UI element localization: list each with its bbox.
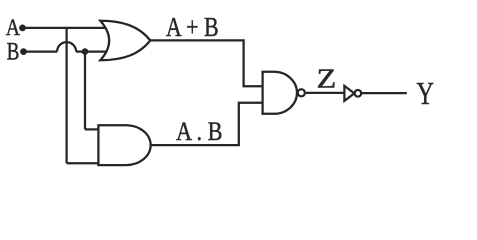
input label B bbox=[7, 36, 20, 65]
inverter bubble bbox=[355, 90, 362, 97]
wire A branch bottom horizontal bbox=[67, 162, 100, 164]
wire B horizontal right of hop bbox=[76, 50, 106, 52]
wire NAND output to inverter bbox=[306, 92, 345, 94]
svg-text:B: B bbox=[7, 36, 20, 65]
wire AND gate output to NAND lower input bbox=[151, 103, 263, 145]
svg-text:Y: Y bbox=[417, 75, 435, 111]
AND gate G2 bbox=[98, 125, 150, 165]
node dot B branch bbox=[82, 48, 89, 55]
wire hop (bridge over A branch) bbox=[57, 42, 76, 52]
wire B branch horizontal into AND bbox=[85, 128, 100, 130]
inverter G4 triangle bbox=[344, 86, 354, 101]
wire B horizontal left of hop bbox=[24, 50, 58, 52]
label A + B bbox=[166, 11, 219, 42]
wire OR gate output to NAND upper input bbox=[150, 40, 262, 86]
output label Y bbox=[417, 75, 435, 111]
input label A bbox=[6, 15, 21, 40]
NAND output bubble bbox=[298, 89, 305, 96]
node dot A bbox=[19, 25, 26, 32]
wire A branch vertical bbox=[65, 28, 67, 163]
node dot B bbox=[20, 48, 27, 55]
wire B branch vertical bbox=[84, 52, 86, 130]
svg-text:Z: Z bbox=[317, 64, 337, 94]
OR gate G1 bbox=[100, 21, 150, 61]
label A . B bbox=[176, 116, 223, 146]
svg-text:A + B: A + B bbox=[166, 11, 219, 42]
wire A horizontal bbox=[23, 27, 107, 29]
NAND gate G3 body bbox=[263, 72, 297, 114]
label Z bbox=[317, 64, 337, 94]
svg-text:A . B: A . B bbox=[176, 116, 223, 146]
wire inverter output bbox=[361, 92, 407, 94]
